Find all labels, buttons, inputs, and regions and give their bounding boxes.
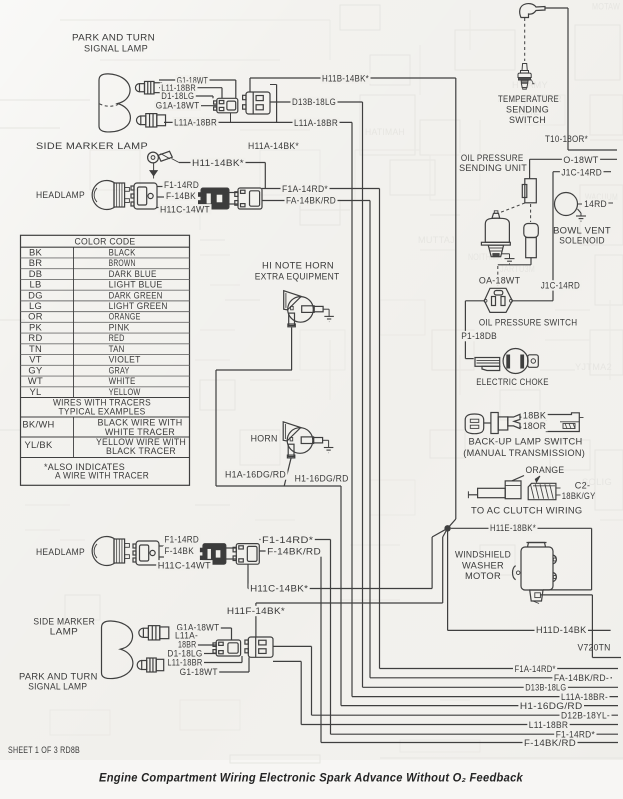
svg-text:V720TN: V720TN — [578, 643, 611, 654]
svg-text:H1-16DG/RD: H1-16DG/RD — [295, 474, 349, 485]
svg-text:H11A-14BK*: H11A-14BK* — [248, 141, 299, 152]
svg-text:14RD: 14RD — [584, 199, 607, 210]
svg-text:J1C-14RD: J1C-14RD — [561, 167, 602, 178]
svg-text:SENDING: SENDING — [506, 105, 549, 116]
svg-text:VIOLET: VIOLET — [109, 354, 141, 365]
svg-text:P1-18DB: P1-18DB — [461, 331, 497, 342]
svg-text:MOTOR: MOTOR — [465, 571, 501, 582]
svg-text:A WIRE WITH TRACER: A WIRE WITH TRACER — [55, 471, 149, 482]
svg-text:WASHER: WASHER — [462, 561, 504, 572]
svg-text:VT: VT — [29, 354, 42, 365]
svg-text:LIGHT BLUE: LIGHT BLUE — [109, 279, 163, 290]
svg-text:BR: BR — [29, 257, 43, 268]
svg-text:L11A-18BR: L11A-18BR — [174, 117, 217, 128]
svg-text:Engine Compartment Wiring Elec: Engine Compartment Wiring Electronic Spa… — [99, 771, 524, 785]
svg-text:H11E-18BK*: H11E-18BK* — [490, 523, 536, 534]
svg-text:PINK: PINK — [109, 322, 130, 333]
svg-text:T10-18OR*: T10-18OR* — [545, 134, 588, 145]
svg-text:F1-14RD: F1-14RD — [164, 180, 199, 191]
svg-text:SIGNAL LAMP: SIGNAL LAMP — [84, 44, 148, 55]
svg-text:F-14BK: F-14BK — [164, 546, 194, 557]
svg-text:SWITCH: SWITCH — [509, 115, 546, 126]
svg-text:OA-18WT: OA-18WT — [479, 276, 520, 287]
svg-text:MUTTAJ: MUTTAJ — [418, 235, 455, 246]
svg-text:TN: TN — [29, 343, 42, 354]
svg-text:C2-: C2- — [575, 481, 591, 492]
svg-text:YL: YL — [29, 386, 41, 397]
svg-text:BROWN: BROWN — [109, 257, 136, 268]
svg-text:TO AC CLUTCH WIRING: TO AC CLUTCH WIRING — [471, 505, 583, 516]
svg-text:O-18WT: O-18WT — [563, 155, 598, 166]
svg-text:F-14BK/RD: F-14BK/RD — [267, 547, 321, 558]
svg-text:WT: WT — [28, 375, 43, 386]
svg-text:OIL PRESSURE SWITCH: OIL PRESSURE SWITCH — [479, 317, 577, 328]
svg-text:DARK BLUE: DARK BLUE — [109, 268, 157, 279]
svg-text:ORANGE: ORANGE — [109, 311, 141, 322]
svg-text:SENDING UNIT: SENDING UNIT — [459, 163, 527, 174]
svg-text:SHEET 1 OF 3 RD8B: SHEET 1 OF 3 RD8B — [8, 745, 80, 756]
svg-text:F-14BK: F-14BK — [166, 191, 196, 202]
svg-text:BLACK: BLACK — [109, 246, 136, 257]
svg-text:LAMP: LAMP — [50, 627, 78, 638]
svg-text:WINDSHIELD: WINDSHIELD — [455, 550, 511, 561]
svg-text:GY: GY — [28, 364, 43, 375]
svg-text:LB: LB — [29, 279, 41, 290]
svg-text:OR: OR — [28, 311, 43, 322]
svg-text:D13B-18LG: D13B-18LG — [292, 97, 336, 108]
svg-text:FA-14BK/RD: FA-14BK/RD — [286, 195, 336, 206]
svg-text:ORANGE: ORANGE — [526, 465, 565, 476]
svg-text:GRAY: GRAY — [109, 364, 130, 375]
svg-text:RED: RED — [109, 332, 125, 343]
svg-text:ELECTRIC CHOKE: ELECTRIC CHOKE — [476, 377, 549, 388]
svg-text:F1A-14RD*: F1A-14RD* — [282, 184, 328, 195]
svg-text:PK: PK — [29, 322, 43, 333]
svg-text:HT AMY: HT AMY — [512, 80, 548, 91]
svg-text:J1C-14RD: J1C-14RD — [541, 280, 580, 291]
svg-text:HORN: HORN — [251, 433, 278, 444]
svg-text:BK: BK — [29, 246, 43, 257]
svg-text:YL/BK: YL/BK — [24, 439, 53, 450]
svg-text:F1-14RD*: F1-14RD* — [262, 535, 313, 546]
svg-text:RD: RD — [28, 332, 42, 343]
svg-text:DB: DB — [29, 268, 43, 279]
svg-text:H1A-16DG/RD: H1A-16DG/RD — [225, 470, 286, 481]
svg-text:MOTAW: MOTAW — [592, 2, 620, 13]
svg-text:SOLENOID: SOLENOID — [559, 236, 605, 247]
svg-text:H11C-14WT: H11C-14WT — [160, 204, 210, 215]
svg-text:H11-14BK*: H11-14BK* — [192, 158, 244, 169]
svg-text:G1-18WT: G1-18WT — [180, 667, 218, 678]
svg-text:H11C-14WT: H11C-14WT — [158, 560, 211, 571]
svg-text:18BK/GY: 18BK/GY — [562, 491, 596, 502]
svg-text:HEADLAMP: HEADLAMP — [36, 190, 85, 201]
svg-text:H11F-14BK*: H11F-14BK* — [227, 606, 285, 617]
svg-text:F1-14RD: F1-14RD — [164, 535, 199, 546]
svg-text:SIGNAL LAMP: SIGNAL LAMP — [28, 682, 87, 693]
svg-text:H11D-14BK: H11D-14BK — [536, 625, 587, 636]
svg-text:H11C-14BK*: H11C-14BK* — [250, 584, 308, 595]
svg-text:18BK: 18BK — [523, 411, 547, 422]
svg-text:SIDE MARKER LAMP: SIDE MARKER LAMP — [36, 141, 148, 152]
svg-text:BACK-UP LAMP SWITCH: BACK-UP LAMP SWITCH — [469, 437, 583, 448]
svg-text:TEMPERATURE: TEMPERATURE — [498, 94, 559, 105]
svg-text:EXTRA EQUIPMENT: EXTRA EQUIPMENT — [255, 271, 340, 282]
svg-text:TAN: TAN — [109, 343, 125, 354]
svg-text:YELLOW: YELLOW — [109, 386, 141, 397]
svg-text:F1A-14RD*: F1A-14RD* — [515, 664, 556, 675]
svg-text:G1A-18WT: G1A-18WT — [156, 101, 200, 112]
svg-text:LG: LG — [29, 300, 42, 311]
svg-text:JARTU3M: JARTU3M — [500, 264, 535, 275]
svg-text:HEADLAMP: HEADLAMP — [36, 547, 85, 558]
svg-text:DG: DG — [28, 289, 43, 300]
svg-text:HI NOTE HORN: HI NOTE HORN — [262, 260, 334, 271]
svg-text:WHITE: WHITE — [109, 375, 136, 386]
svg-text:DARK GREEN: DARK GREEN — [109, 289, 163, 300]
svg-text:HATIMAH: HATIMAH — [365, 127, 405, 138]
svg-text:BLACK TRACER: BLACK TRACER — [106, 445, 176, 456]
svg-text:BK/WH: BK/WH — [22, 419, 54, 430]
svg-text:PARK AND TURN: PARK AND TURN — [72, 33, 155, 44]
svg-text:F-14BK/RD: F-14BK/RD — [524, 738, 576, 749]
svg-text:L11A-18BR: L11A-18BR — [294, 118, 338, 129]
svg-text:H11B-14BK*: H11B-14BK* — [322, 74, 369, 85]
svg-text:18OR: 18OR — [523, 421, 546, 432]
svg-text:YJTMA2: YJTMA2 — [575, 362, 612, 373]
svg-text:LIGHT GREEN: LIGHT GREEN — [109, 300, 168, 311]
svg-text:(MANUAL TRANSMISSION): (MANUAL TRANSMISSION) — [463, 448, 585, 459]
